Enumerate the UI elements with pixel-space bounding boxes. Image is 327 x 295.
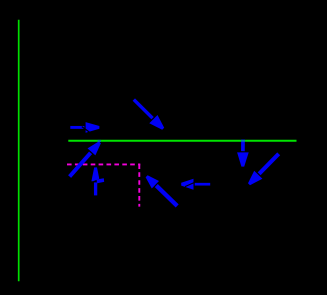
arrow A7 left (below line, middle-right) (181, 179, 210, 190)
green horizontal equilibrium line (68, 140, 296, 142)
teal blend where down-arrow shaft crosses the green line (241, 140, 245, 142)
arrow A1 right (above line, left) (70, 122, 99, 133)
arrow A6 down-left (below line, right) (248, 154, 279, 185)
arrow A2 down-right (above line, middle) (134, 100, 164, 130)
teal blend where up-right arrow tip meets the green line (98, 140, 101, 142)
magenta dashed box top edge (67, 163, 140, 165)
green vertical axis line (18, 20, 20, 282)
arrow A8 up-left (below line, middle) (146, 175, 178, 206)
arrow A5 down (crossing green line at right) (237, 140, 249, 167)
magenta dashed box right edge (138, 164, 140, 206)
arrow A4 up (inside dashed box region) (89, 167, 105, 195)
arrow A3 up-right (from below up to the line) (70, 141, 101, 176)
